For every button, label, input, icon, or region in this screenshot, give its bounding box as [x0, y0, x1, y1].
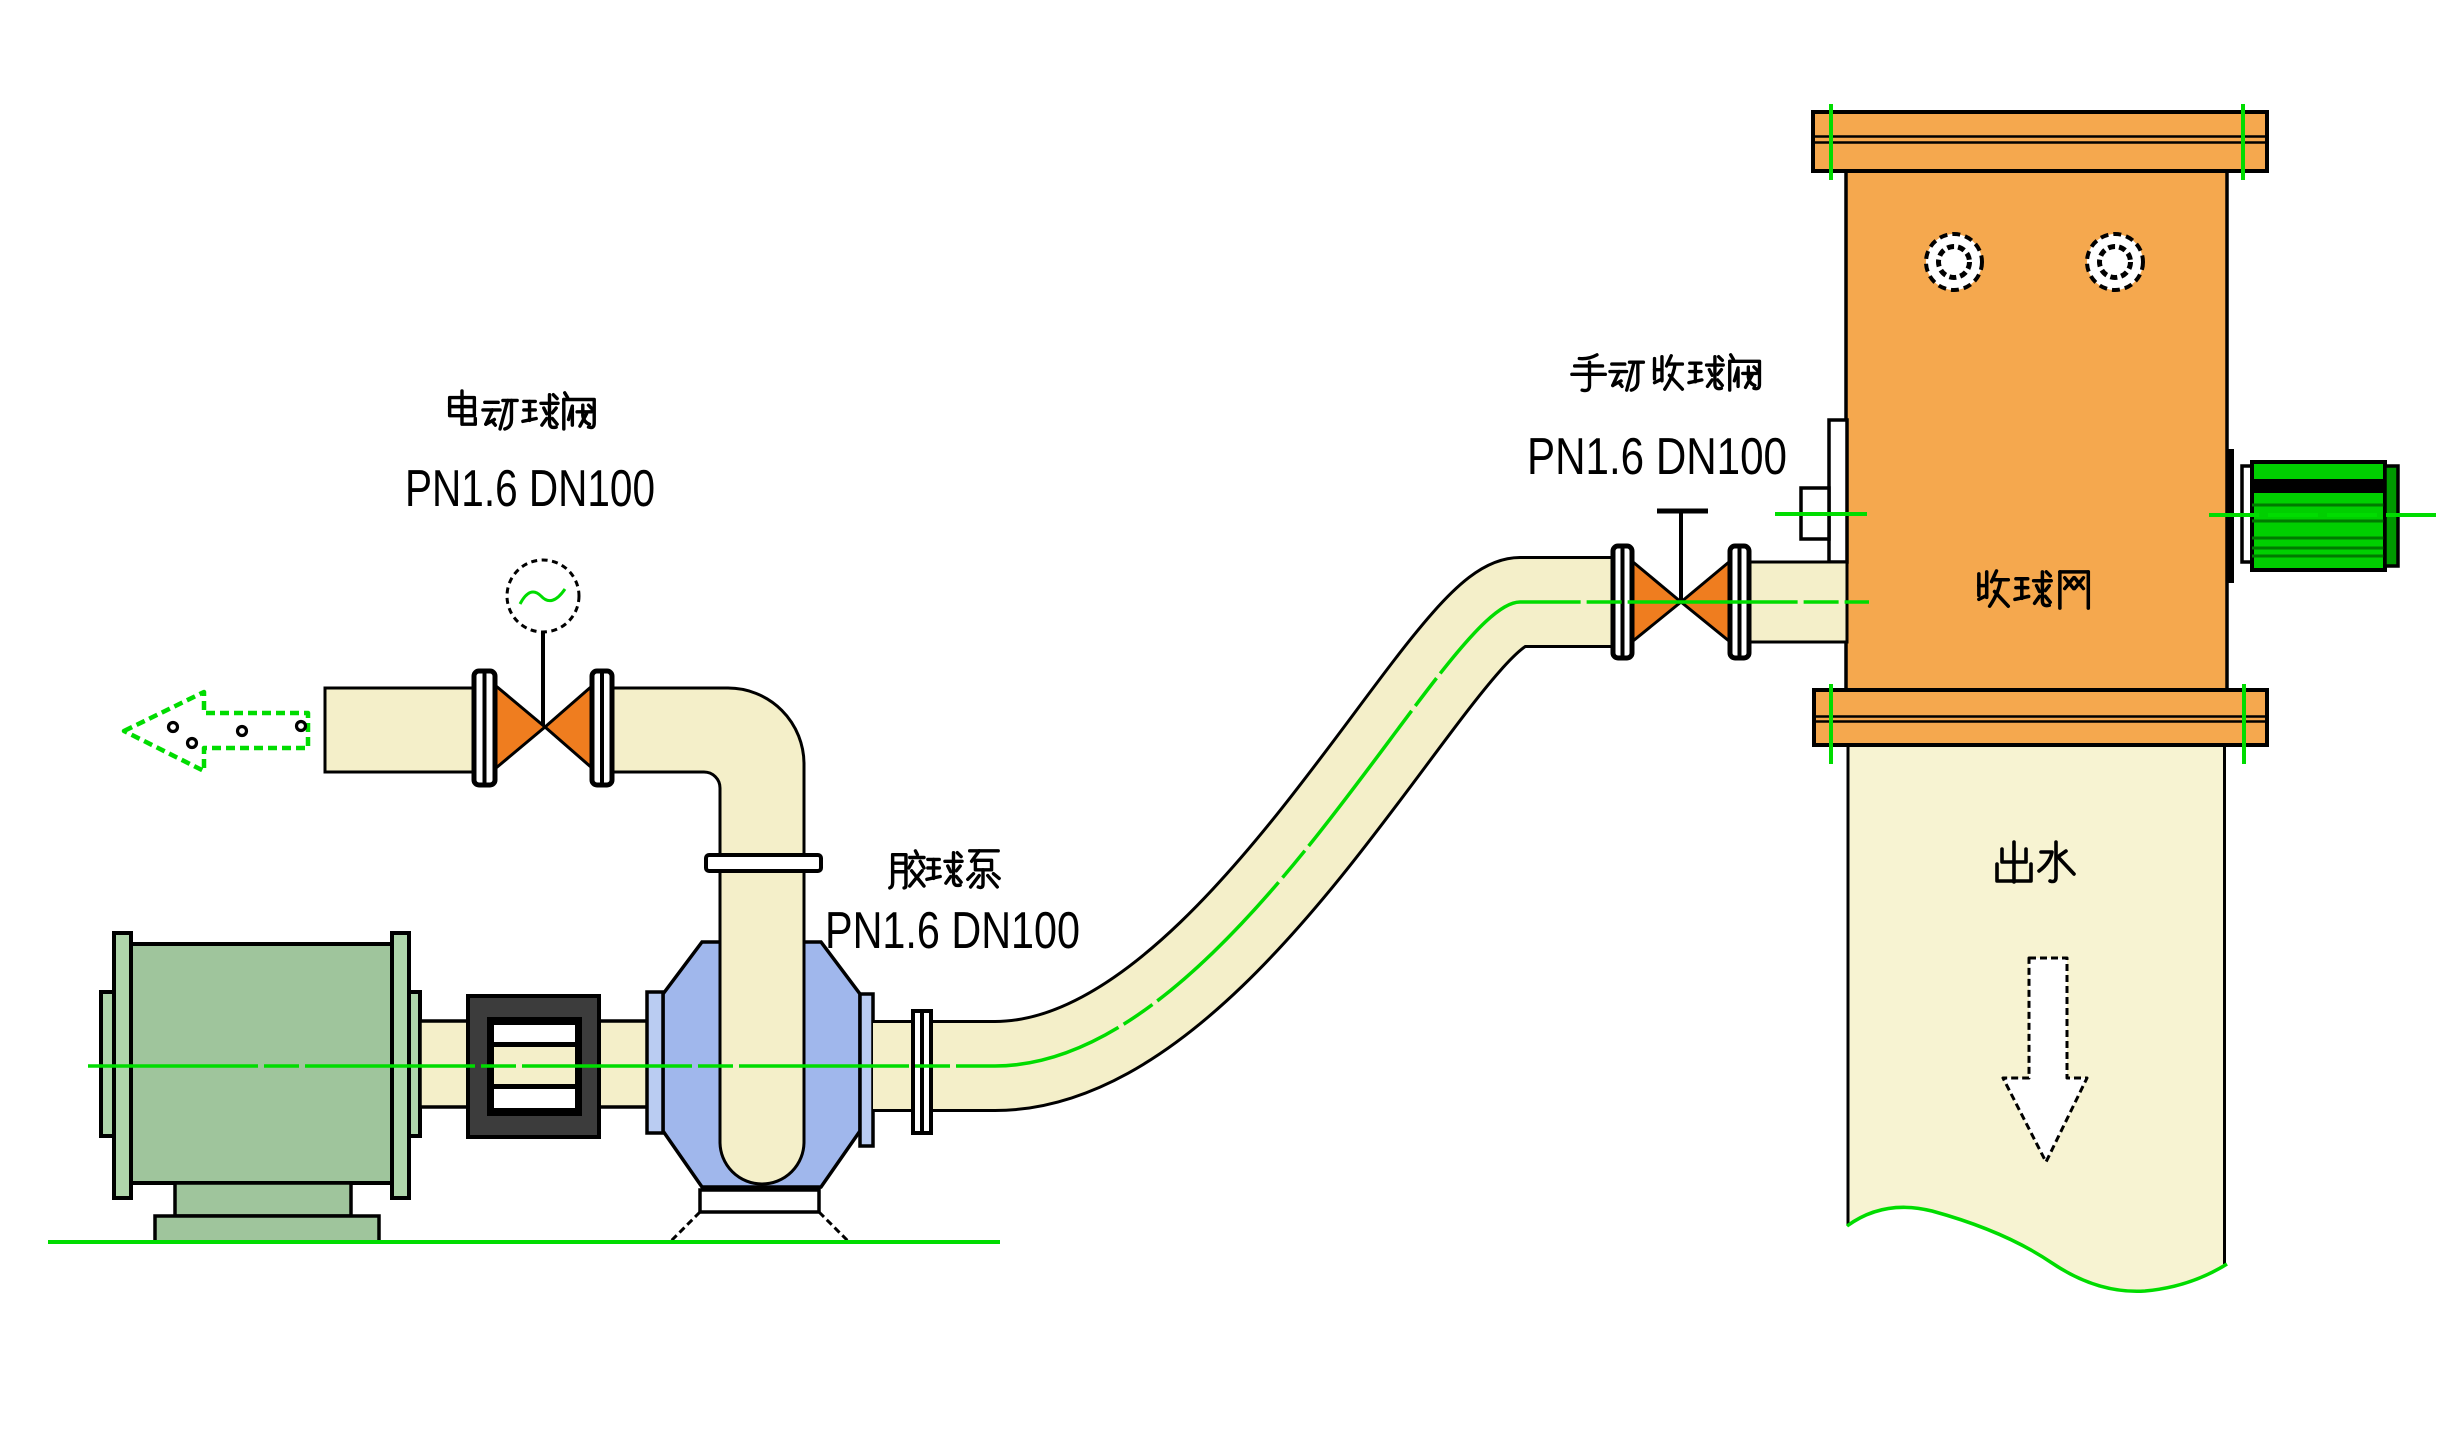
svg-text:PN1.6 DN100: PN1.6 DN100 — [1527, 428, 1787, 486]
svg-text:PN1.6 DN100: PN1.6 DN100 — [825, 902, 1080, 960]
svg-text:PN1.6 DN100: PN1.6 DN100 — [405, 460, 655, 518]
